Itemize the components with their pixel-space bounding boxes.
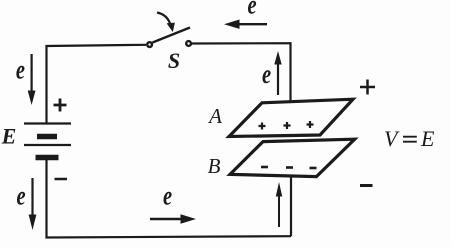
capacitor plate B: [230, 139, 355, 176]
svg-text:E: E: [420, 126, 435, 151]
electron flow arrow (leftward, top wire): [224, 20, 267, 29]
svg-text:e: e: [247, 0, 256, 20]
wire: bottom wire to battery - terminal: [47, 157, 292, 238]
switch S: [147, 28, 191, 47]
svg-text:S: S: [168, 48, 180, 73]
svg-text:e: e: [16, 181, 25, 212]
electron flow arrow (upward, right wire above plate A): [274, 51, 281, 95]
svg-text:B: B: [208, 154, 221, 178]
electron flow arrow (downward, below battery): [29, 178, 37, 230]
charge - signs on plate B: [261, 167, 317, 168]
label + (battery positive): [54, 99, 67, 112]
wire: battery + terminal up and across to switch: [47, 45, 147, 124]
wire: plate B down to bottom-right corner: [290, 176, 292, 236]
svg-text:e: e: [163, 180, 172, 211]
switch closing arrow: [157, 13, 175, 33]
label - (charged plate B polarity): [360, 184, 373, 187]
capacitor plate A: [229, 99, 353, 136]
charge + signs on plate A: [259, 121, 314, 130]
label + (charged plate A polarity): [360, 80, 375, 95]
battery E (two cells): [24, 124, 71, 158]
electron flow arrow (downward, top-left wire): [28, 54, 36, 105]
svg-text:e: e: [16, 55, 25, 86]
label - (battery negative): [55, 178, 68, 181]
svg-text:e: e: [262, 59, 271, 90]
electron flow arrow (upward, below plate B): [276, 182, 282, 227]
wire: switch to top-right corner, down to plate A: [192, 43, 291, 101]
svg-text:A: A: [207, 104, 222, 128]
svg-text:E: E: [1, 124, 17, 149]
electron flow arrow (rightward, bottom wire): [150, 214, 196, 223]
